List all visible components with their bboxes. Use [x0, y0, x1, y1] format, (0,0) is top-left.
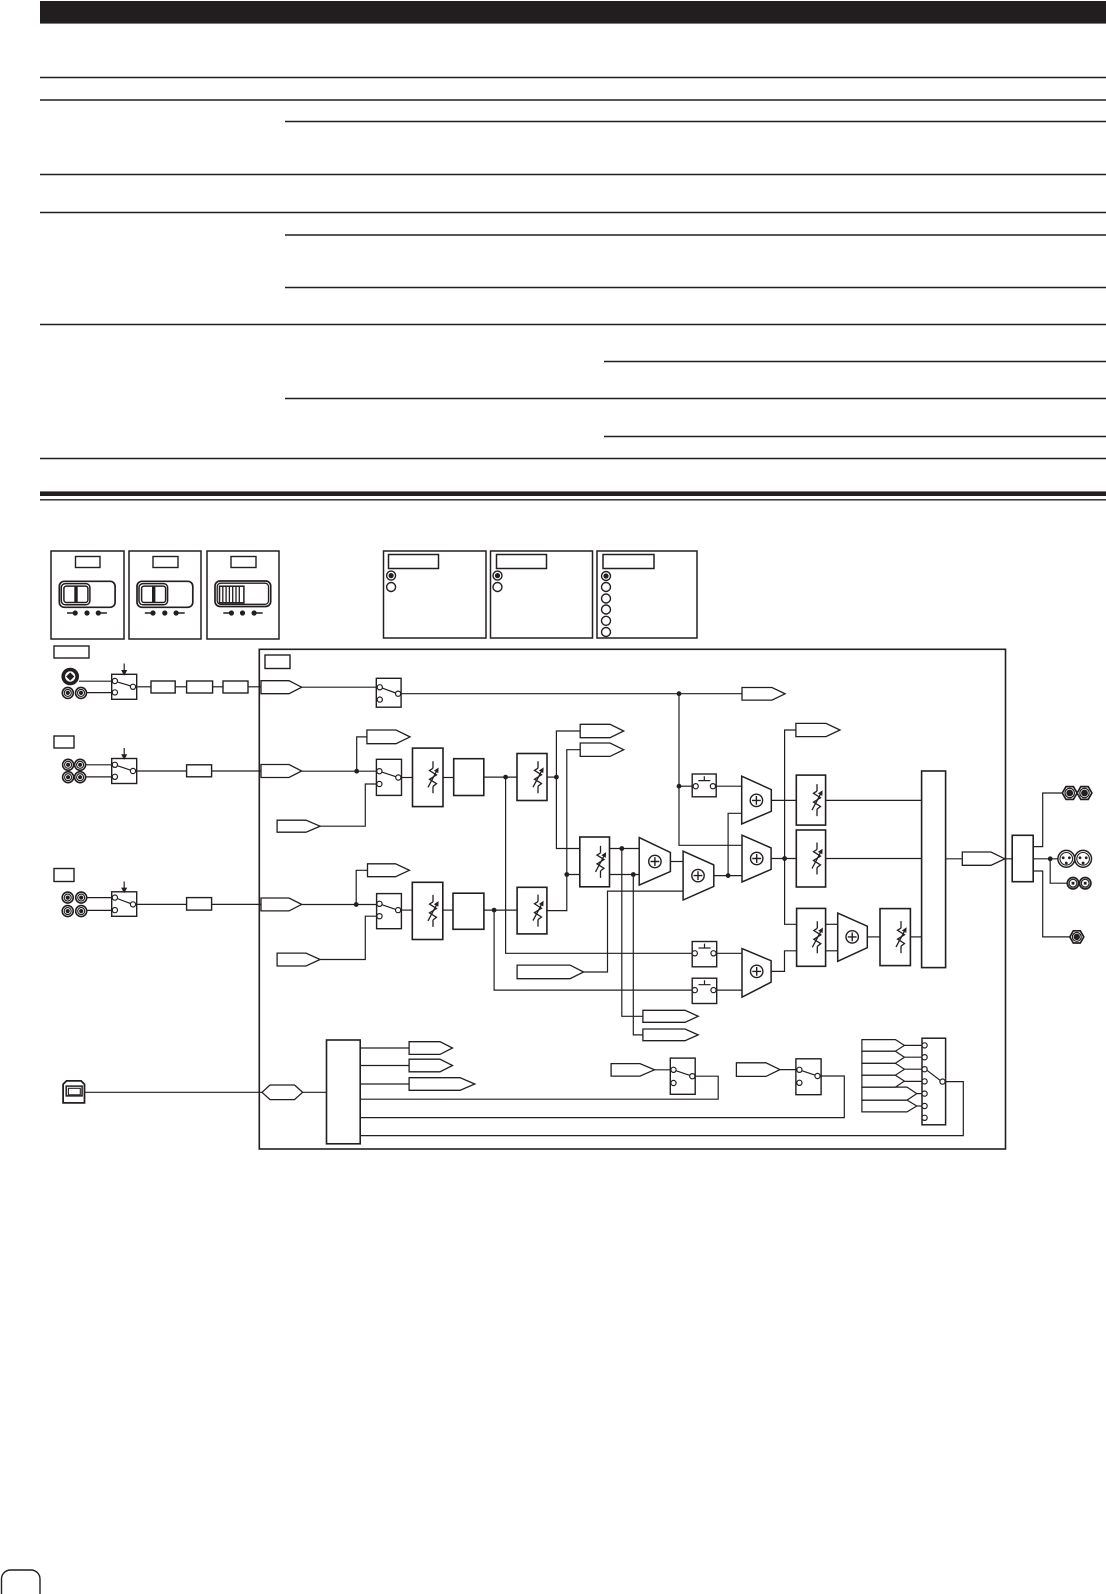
CH1 trim pot: [413, 748, 444, 807]
net tag T2 ch1 in: [261, 765, 302, 778]
CH1 block: [187, 765, 212, 777]
wire POT-PH to AMP4 upper: [826, 923, 838, 925]
source selector switch SW-C: [377, 894, 402, 929]
wire node to tag B: [567, 750, 580, 875]
net tag T6 usb source: [277, 953, 320, 966]
wire ch1 cue drop: [506, 777, 693, 953]
wire: [213, 686, 223, 688]
wire pot to EQ: [443, 909, 453, 911]
table rule 5: [40, 212, 1106, 214]
phones amp AMP4: [838, 913, 868, 961]
mic cue push switch PUSH-M: [692, 774, 716, 797]
USB B connector: [63, 1081, 84, 1103]
table rule 12: [40, 458, 1106, 460]
front phones jack: [1070, 931, 1084, 943]
wire phones mix to AMP2: [584, 891, 684, 972]
wire out block to front phones jack: [1033, 871, 1070, 937]
phones mixing pot POT-PH: [797, 908, 826, 966]
cue push switch PUSH1: [692, 942, 717, 967]
wire program to master amp: [728, 813, 742, 875]
header bar: [40, 1, 1106, 24]
wire mic to cue switch: [679, 785, 693, 787]
usb send selector block: [922, 1038, 946, 1125]
net tag bank 6: [862, 1100, 917, 1112]
table rule 8: [40, 324, 1106, 326]
output driver block: [1012, 835, 1033, 881]
wire bank2 to selector: [904, 1056, 922, 1058]
node xlr rca split: [1048, 856, 1053, 861]
net tag bank 4: [862, 1075, 905, 1087]
net tag T5: [368, 864, 410, 877]
MIC RCA jacks: [62, 687, 86, 698]
CH2 post EQ wire: [484, 909, 517, 911]
master level pot POT-M1: [796, 775, 825, 825]
wire ch2 to crossfader: [547, 875, 580, 911]
wire tag to SW-D: [655, 1069, 672, 1071]
panel P2 input switch legend: [129, 551, 201, 639]
wire S1 to attenuator chain: [136, 686, 151, 688]
wire through enclosure to out block: [1005, 858, 1012, 860]
panel PA radio legend: [384, 551, 487, 638]
rec RCA R: [1080, 878, 1091, 889]
wire CH1 top pair to S2: [86, 764, 112, 766]
wire POT-M2 to matrix: [826, 858, 922, 860]
net tag T3: [367, 730, 410, 744]
wire xfader A out: [610, 848, 640, 850]
wire matrix to master tag: [946, 858, 963, 860]
CH1 post EQ wire: [484, 776, 517, 778]
node B out: [631, 872, 636, 877]
wire AMP4 to phones level pot: [867, 936, 880, 938]
node mic to cue: [677, 784, 682, 789]
mic block 3: [223, 681, 248, 693]
mic block 1: [151, 681, 175, 693]
wire PUSH1 to AMP3: [716, 952, 742, 954]
XLR jack R: [1075, 850, 1092, 867]
wire ch2 cue drop: [494, 910, 693, 990]
booth summing amp AMP-MID: [742, 835, 771, 882]
table rule 3: [285, 121, 1106, 123]
wire POT-PH to AMP4 lower: [826, 950, 838, 952]
wire fader to node: [547, 776, 556, 778]
wire into enclosure: [212, 770, 261, 772]
CH1 EQ block: [454, 759, 484, 796]
wire POT-M1 to matrix: [826, 799, 922, 801]
section separator thin rule: [40, 499, 1106, 501]
wire SW-C to trim pot: [401, 909, 413, 911]
wire SW-B to trim pot: [401, 777, 413, 779]
table rule 10: [285, 398, 1106, 400]
booth level pot POT-M2: [796, 830, 825, 887]
node mic bus: [677, 691, 682, 696]
input selector switch S2: [112, 748, 137, 784]
CH2 fader pot: [517, 887, 547, 934]
label MIC: [54, 646, 89, 658]
net tag USB bidirectional: [262, 1085, 303, 1100]
mic on/off switch SW-A: [376, 678, 401, 707]
wire A drop to tag: [622, 849, 643, 1017]
CH2 trim pot: [412, 882, 443, 939]
wire AMP3 to phones pot: [771, 951, 797, 972]
mic block 2: [187, 681, 213, 693]
panel PC radio legend: [597, 551, 697, 638]
node ch1 fader feed: [554, 775, 559, 780]
table rule 11: [604, 436, 1106, 438]
net tag bank 2: [862, 1051, 905, 1063]
MIC phone jack: [61, 668, 79, 686]
net tag xfader A: [643, 1010, 698, 1022]
net tag U3: [409, 1078, 475, 1091]
page number badge: [2, 1570, 41, 1594]
summing amp AMP1: [639, 838, 670, 886]
wire out block to phones jacks: [1033, 793, 1062, 847]
source selector switch SW-B: [376, 759, 401, 795]
net tag xfader B: [643, 1029, 698, 1041]
wire SW-E return loop: [360, 1076, 844, 1118]
wire tag to USB interface: [303, 1091, 327, 1093]
wire into enclosure: [212, 903, 261, 905]
input selector switch S3: [112, 882, 137, 917]
wire S2 to block: [136, 770, 187, 772]
output matrix block: [922, 771, 946, 968]
wire xfader B out: [610, 874, 640, 876]
wire ch1 to crossfader: [556, 777, 579, 848]
net tag T7 master: [796, 723, 840, 736]
wire node to tag T5: [356, 870, 367, 904]
main block diagram enclosure: [259, 649, 1005, 1149]
cue push switch PUSH2: [692, 978, 717, 1003]
net tag bank 1: [862, 1040, 905, 1052]
table rule 7: [285, 287, 1106, 289]
wire out block to XLR: [1033, 858, 1057, 860]
XLR jack L: [1058, 850, 1075, 867]
label CH1: [54, 736, 74, 748]
usb return selector SW-D: [670, 1058, 695, 1094]
wire T1 to switch SW-A: [302, 686, 378, 688]
usb return selector SW-E: [796, 1059, 821, 1095]
net tag bank 5: [862, 1087, 917, 1100]
table rule 9: [604, 361, 1106, 363]
node ch1 source: [354, 769, 359, 774]
wire PUSH2 to AMP3: [716, 989, 742, 991]
table rule 2: [40, 99, 1106, 101]
wire T2 to SW-B: [302, 770, 377, 772]
table rule 4: [40, 174, 1106, 176]
wire node to rec RCA: [1050, 859, 1067, 883]
CH2 EQ block: [453, 893, 484, 929]
node program bus: [726, 873, 731, 878]
net tag T2b usb source: [277, 820, 320, 832]
net tag T8 master out: [962, 852, 1005, 865]
wire SW-D return loop: [360, 1076, 718, 1099]
CH1 fader pot: [517, 754, 547, 801]
enclosure label box: [265, 655, 290, 669]
net tag T4 ch2 in: [261, 898, 302, 911]
wire AMP-MID to booth pot: [771, 858, 796, 860]
wire node to tag T3: [357, 737, 367, 771]
node A out: [619, 846, 624, 851]
node ch2 cue tap: [492, 908, 497, 913]
input selector switch S1: [112, 664, 137, 700]
wire selector return loop: [360, 1082, 963, 1136]
wire S3 to block: [136, 903, 187, 905]
wire CH2 bottom pair to S3: [87, 909, 112, 911]
wire node to tag A: [556, 731, 580, 777]
section separator thick rule: [40, 491, 1106, 496]
master summing amp AMP-TOP: [742, 776, 772, 824]
net tag U2: [409, 1059, 452, 1072]
net tag U1: [409, 1042, 452, 1055]
wire to tag U2: [360, 1065, 409, 1067]
mic bus wire: [401, 693, 742, 695]
wire AMP1 to AMP2: [670, 861, 683, 863]
phones level pot POT-PH2: [880, 909, 910, 966]
phones jack R: [1077, 787, 1092, 800]
wire to tag U3: [360, 1083, 409, 1085]
table rule 6: [285, 234, 1106, 236]
wire T2b to SW-B lower: [320, 784, 377, 826]
net tag rec source B: [736, 1063, 780, 1077]
net tag B: [580, 743, 624, 756]
net tag T1 mic in: [261, 681, 302, 694]
wire AMP-TOP to master pot: [771, 799, 796, 801]
wire bank3 to selector: [904, 1068, 922, 1070]
wire POT-PH2 to matrix: [910, 936, 921, 938]
node booth tap: [782, 856, 787, 861]
crossfader pot: [580, 837, 610, 887]
wire into enclosure: [248, 686, 261, 688]
wire to tag U1: [360, 1047, 409, 1049]
wire mic rca to S1: [87, 692, 112, 694]
wire pot to EQ: [443, 777, 454, 779]
panel P3 crossfader legend: [207, 551, 279, 639]
wire mic jack to S1: [79, 680, 112, 682]
rec RCA L: [1067, 878, 1078, 889]
net tag phones mix: [517, 965, 584, 979]
wire tag to SW-E: [780, 1069, 797, 1071]
net tag bank 3: [862, 1063, 905, 1075]
wire cue to master amp: [716, 785, 742, 787]
wire CH2 top pair to S3: [87, 897, 112, 899]
node ch2 source: [354, 902, 359, 907]
wire bank6 to selector: [917, 1105, 922, 1107]
wire bank4 to selector: [904, 1080, 922, 1082]
summing amp AMP2: [683, 851, 714, 900]
wire B drop to tag: [633, 875, 643, 1035]
wire T4 to SW-C: [302, 904, 377, 906]
wire bank1 to selector: [904, 1044, 922, 1046]
USB interface block: [327, 1040, 361, 1144]
wire mic drop: [679, 694, 742, 846]
wire T7 drop to phones pot: [785, 730, 797, 924]
label CH2: [54, 869, 74, 882]
panel P1 input switch legend: [51, 551, 124, 639]
net tag A: [580, 724, 624, 737]
node ch1 cue tap: [503, 775, 508, 780]
CH2 block: [187, 898, 212, 911]
wire: [175, 686, 186, 688]
wire USB to tag: [85, 1091, 263, 1093]
cue summing amp AMP3: [742, 949, 771, 998]
table rule 1: [40, 77, 1106, 79]
CH2 RCA jacks: [62, 892, 87, 917]
panel PB radio legend: [491, 551, 593, 638]
net tag mic bus: [742, 688, 785, 701]
wire CH1 bottom pair to S2: [86, 776, 112, 778]
wire AMP2 out: [714, 875, 742, 877]
wire T6 to SW-C lower: [320, 916, 377, 959]
wire bank5 to selector: [917, 1093, 922, 1095]
node ch2 xfader feed: [564, 872, 569, 877]
phones jack L: [1062, 787, 1077, 800]
net tag rec source A: [611, 1064, 654, 1077]
CH1 RCA jacks: [63, 759, 86, 782]
